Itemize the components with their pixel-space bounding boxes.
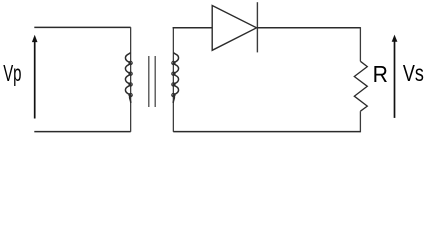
transformer core line 2 — [154, 56, 156, 107]
wire: left loop bottom rail — [34, 131, 130, 133]
svg-text:R: R — [373, 61, 388, 87]
transformer core line 1 — [148, 56, 150, 107]
output arrow Vs — [394, 41, 396, 118]
source arrow Vp — [34, 42, 36, 119]
wire: top rail secondary to diode anode — [173, 27, 213, 29]
diode D1 triangle — [212, 6, 256, 51]
transformer primary winding L1 — [130, 27, 132, 132]
transformer secondary winding L2 — [172, 27, 174, 132]
resistor R zigzag — [354, 61, 367, 111]
wire: diode cathode to top-right corner — [257, 27, 360, 29]
wire: right vertical above resistor — [359, 27, 361, 61]
wire: right vertical below resistor — [359, 111, 361, 132]
diode D1 cathode bar — [256, 2, 258, 52]
wire: left loop top rail — [34, 26, 130, 28]
svg-text:Vs: Vs — [403, 60, 424, 86]
wire: right loop bottom rail — [173, 131, 360, 133]
svg-text:Vp: Vp — [3, 60, 21, 86]
